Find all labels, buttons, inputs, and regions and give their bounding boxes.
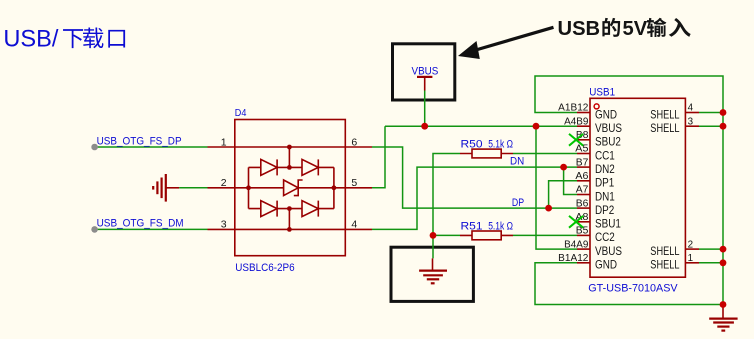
svg-text:SBU1: SBU1 <box>595 217 621 231</box>
wire R51 right to CC2 <box>513 234 577 236</box>
ground (earth, left of D4 pin2) <box>165 174 167 202</box>
svg-text:3: 3 <box>221 219 227 231</box>
svg-text:B1A12: B1A12 <box>558 253 588 264</box>
svg-text:5.1k Ω: 5.1k Ω <box>488 221 513 233</box>
svg-text:4: 4 <box>351 219 357 231</box>
svg-text:DP1: DP1 <box>595 176 614 190</box>
svg-text:R50: R50 <box>461 138 483 150</box>
port dot USB_OTG_FS_DP <box>91 144 98 151</box>
svg-text:SBU2: SBU2 <box>595 135 621 149</box>
wire SHELL1 stub <box>699 262 723 264</box>
wire SHELL4 stub <box>699 112 723 114</box>
diode D4 top-left <box>261 159 277 175</box>
wire ground to D4 pin2 <box>179 187 207 189</box>
D4 internal junctions <box>287 145 292 150</box>
svg-text:SHELL: SHELL <box>650 258 680 272</box>
wire D4 pin4 to DN row <box>372 167 577 229</box>
svg-text:B4A9: B4A9 <box>564 239 588 250</box>
wire VBUS branch to B4A9 <box>536 126 577 249</box>
svg-text:GT-USB-7010ASV: GT-USB-7010ASV <box>588 282 678 294</box>
wire R51 left <box>433 234 460 236</box>
wire R50 left + ground vertical <box>433 154 460 259</box>
power symbol VBUS <box>417 76 432 78</box>
svg-text:GND: GND <box>595 258 617 272</box>
no-connect X on B8 <box>569 134 583 146</box>
svg-text:USB_OTG_FS_DM: USB_OTG_FS_DM <box>97 218 184 230</box>
svg-text:DN1: DN1 <box>595 189 615 203</box>
svg-text:USBLC6-2P6: USBLC6-2P6 <box>235 262 295 274</box>
wire SHELL3 stub <box>699 125 723 127</box>
port dot USB_OTG_FS_DM <box>91 226 98 233</box>
wire DP1 stub <box>549 181 577 208</box>
wire D4 pin6 to DP row <box>372 147 577 208</box>
svg-text:USB1: USB1 <box>589 87 615 99</box>
zener D4 center <box>284 180 299 196</box>
svg-text:DN: DN <box>510 155 524 167</box>
resistor R50 5.1k <box>460 153 513 155</box>
resistor R51 5.1k <box>460 234 513 236</box>
svg-text:CC1: CC1 <box>595 148 615 162</box>
junction dots <box>421 123 428 130</box>
USB receptacle USB1 GT-USB-7010ASV <box>590 98 685 277</box>
diode D4 top-right <box>302 159 318 175</box>
svg-text:USB: USB <box>558 18 601 40</box>
callout arrow <box>478 27 554 49</box>
svg-text:DN2: DN2 <box>595 162 615 176</box>
ground highlight box <box>391 247 473 301</box>
wire VBUS rail <box>385 125 577 127</box>
VBUS highlight box <box>393 44 455 100</box>
wire D4 pin5 to VBUS rail <box>372 126 385 188</box>
svg-text:5.1k Ω: 5.1k Ω <box>488 138 513 150</box>
wire GND B1A12 bottom <box>535 263 723 305</box>
wire R50 right to CC1 <box>513 153 577 155</box>
svg-text:SHELL: SHELL <box>650 107 680 121</box>
svg-text:2: 2 <box>688 239 693 250</box>
diode D4 bottom-right <box>302 201 318 217</box>
wire DN1 stub <box>564 167 577 194</box>
wire SHELL2 stub <box>699 248 723 250</box>
diode D4 bottom-left <box>261 201 277 217</box>
svg-text:SHELL: SHELL <box>650 121 680 135</box>
svg-text:2: 2 <box>221 177 227 189</box>
svg-text:1: 1 <box>688 253 693 264</box>
svg-text:VBUS: VBUS <box>595 121 622 135</box>
diode array D4 USBLC6-2P6 <box>208 120 373 256</box>
ground (earth, in highlight box) <box>432 258 434 270</box>
svg-text:SHELL: SHELL <box>650 244 680 258</box>
svg-text:5: 5 <box>351 177 357 189</box>
svg-text:USB/: USB/ <box>3 26 59 52</box>
svg-text:5V: 5V <box>623 18 648 40</box>
svg-text:CC2: CC2 <box>595 230 615 244</box>
wire GND A1B12 top loop <box>535 76 723 305</box>
svg-text:A4B9: A4B9 <box>564 116 588 127</box>
svg-text:GND: GND <box>595 107 617 121</box>
svg-text:D4: D4 <box>235 107 247 119</box>
svg-text:B7: B7 <box>576 157 589 168</box>
wire USB_OTG_FS_DM to D4 pin3 <box>95 228 208 230</box>
svg-text:3: 3 <box>688 116 694 127</box>
svg-text:DP: DP <box>512 197 524 209</box>
svg-text:VBUS: VBUS <box>595 244 622 258</box>
svg-text:A7: A7 <box>576 185 589 196</box>
svg-text:USB_OTG_FS_DP: USB_OTG_FS_DP <box>97 135 182 147</box>
svg-text:B6: B6 <box>576 198 589 209</box>
svg-text:VBUS: VBUS <box>412 65 439 77</box>
wire VBUS symbol drop <box>424 91 426 127</box>
svg-text:4: 4 <box>688 103 694 114</box>
svg-text:DP2: DP2 <box>595 203 614 217</box>
svg-text:1: 1 <box>221 136 227 148</box>
ground (earth, bottom right) <box>722 305 724 319</box>
svg-text:A1B12: A1B12 <box>558 103 588 114</box>
wire USB_OTG_FS_DP to D4 pin1 <box>95 146 208 148</box>
svg-text:R51: R51 <box>461 221 483 233</box>
svg-text:6: 6 <box>351 136 357 148</box>
svg-text:A6: A6 <box>575 171 589 182</box>
no-connect X on A8 <box>569 216 583 228</box>
